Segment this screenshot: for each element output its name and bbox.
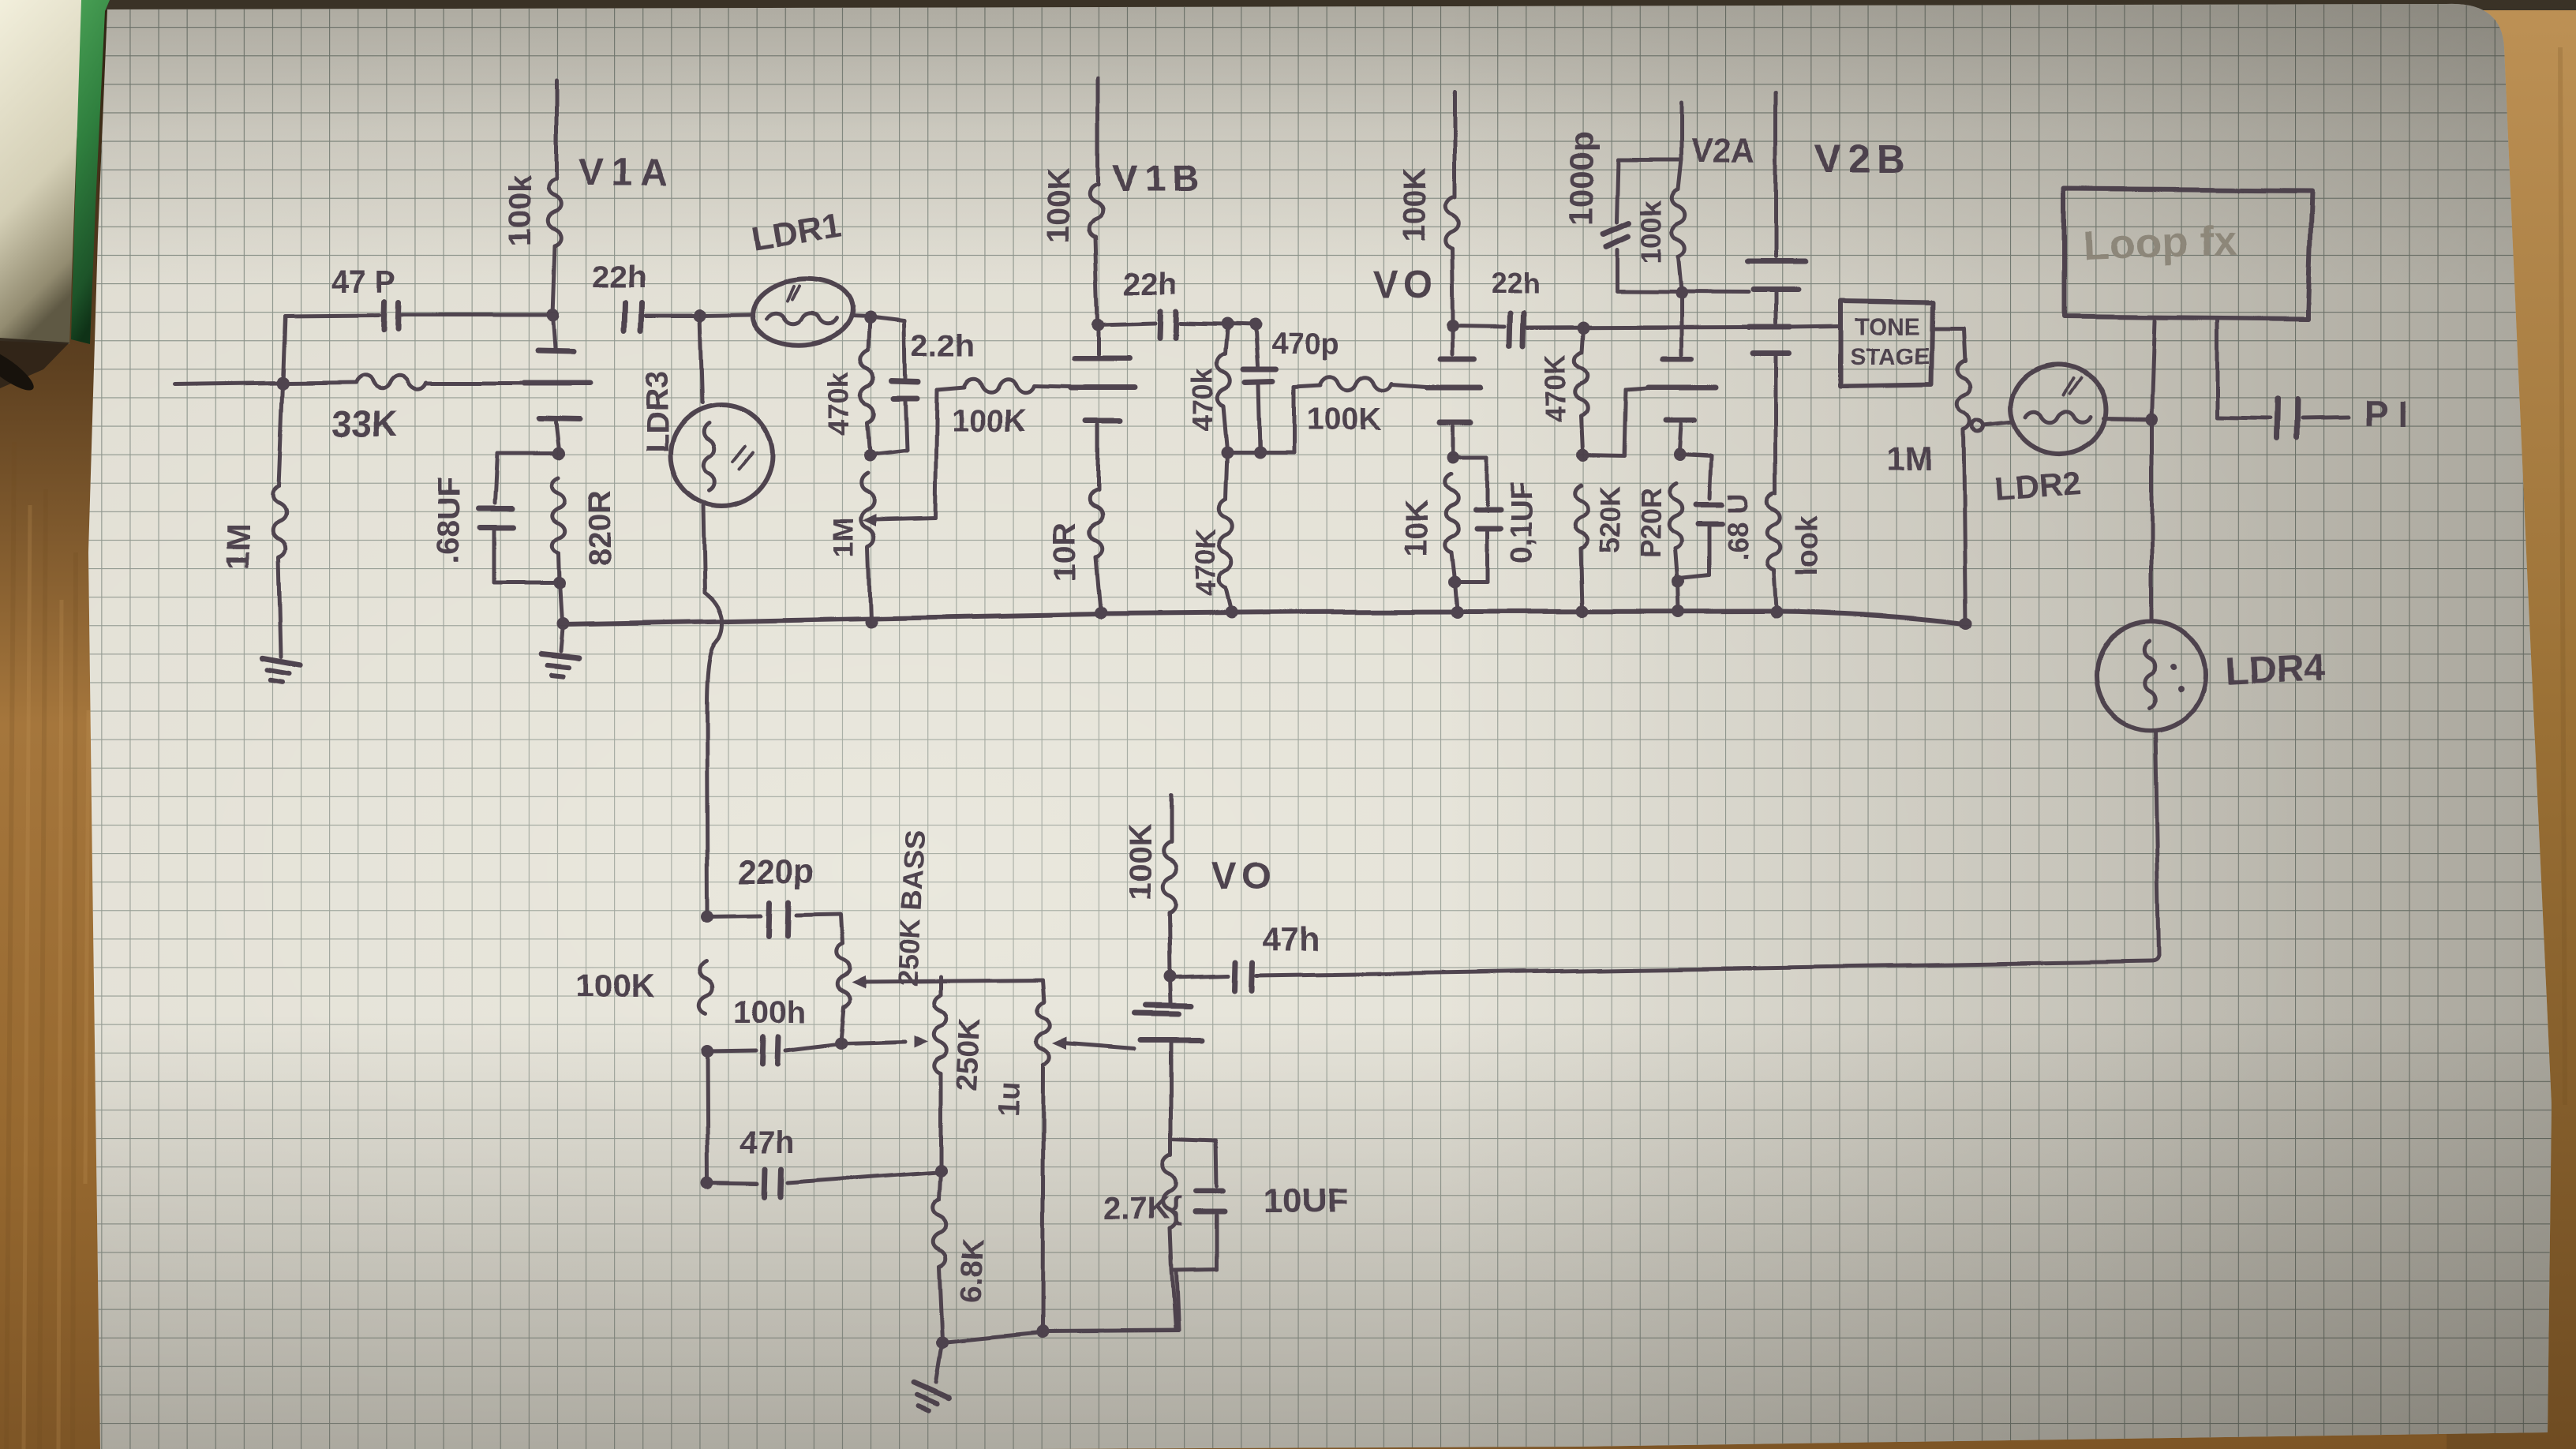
node bus 520K [1576, 605, 1589, 618]
node LDR2 out [2146, 413, 2159, 425]
resistor 100K slope [700, 961, 713, 1014]
svg-text:2.7K{: 2.7K{ [1103, 1191, 1182, 1226]
svg-text:100k: 100k [1634, 200, 1667, 264]
capacitor PI coupling [2276, 399, 2277, 440]
wire V1A wiper [863, 515, 877, 527]
wire V2B col mid [1774, 293, 1778, 323]
capacitor plate V1A c1 [537, 350, 574, 351]
svg-text:820R: 820R [583, 489, 618, 565]
capacitor 47P [384, 301, 384, 330]
capacitor 470p [1255, 325, 1257, 366]
node LDR1 out [863, 312, 876, 324]
node VO cathode [1447, 451, 1459, 463]
wire tone out [1933, 327, 1964, 331]
resistor 470K V1A mix upper [868, 318, 870, 351]
capacitor plate V1B c3 [1086, 420, 1120, 425]
svg-text:V2A: V2A [1690, 132, 1755, 169]
wire V2B col lower [1774, 356, 1778, 493]
wire PI out [2301, 418, 2349, 419]
svg-text:100K: 100K [1398, 167, 1432, 243]
node V1B mix a [1221, 446, 1234, 459]
wire VO2 col lower [1170, 1043, 1174, 1140]
resistor 100K V2A grid [1672, 189, 1685, 256]
ground input [259, 658, 300, 684]
node bus V1B mix [1225, 606, 1237, 619]
resistor 820R V2A cathode [1669, 483, 1683, 549]
wire 47n long [1256, 956, 2159, 975]
svg-text:22h: 22h [1492, 268, 1541, 300]
capacitor plate V1A c2 wide [524, 380, 591, 386]
wire main bus [563, 611, 1966, 624]
resistor 100K interstage 2 [1294, 385, 1320, 387]
node bus V1A [864, 616, 877, 628]
resistor 100K V1A plate [555, 81, 559, 180]
wire LDR3 drop [706, 710, 707, 915]
svg-text:470K: 470K [1189, 528, 1222, 596]
wire V1A col upper [552, 315, 555, 348]
node VO2 [1164, 971, 1177, 983]
node input junction [276, 377, 289, 390]
capacitor plate VO c3 [1440, 419, 1471, 425]
capacitor 1000p [1618, 159, 1681, 163]
capacitor plate VO2 c1 [1146, 1005, 1192, 1006]
node bus left end [556, 617, 569, 630]
wire bottom return [942, 1332, 1040, 1342]
node V2 mix [1577, 449, 1589, 462]
resistor 100K VO plate [1453, 92, 1457, 197]
wire LDR4 riser [2151, 421, 2155, 621]
wire LDR3 bottom [703, 506, 705, 593]
wire to 2.2n corner [870, 317, 904, 321]
node V1B mix b [1253, 446, 1266, 459]
resistor 470K V2 upper [1582, 328, 1584, 352]
node LDR2 left terminal [1972, 421, 1983, 432]
capacitor 22n VO out [1511, 313, 1511, 346]
capacitor 22n V1B [1159, 311, 1160, 338]
node 100n tap [701, 1045, 713, 1058]
resistor 470K V1B mix lower [1219, 499, 1233, 587]
node V2A cathode bottom [1672, 575, 1685, 588]
wire rail to LDR1 [646, 314, 698, 318]
capacitor plate V2B c1 wide [1748, 259, 1805, 264]
svg-text:100K: 100K [1123, 824, 1158, 900]
capacitor 220p [707, 915, 762, 916]
capacitor 47n low [707, 1053, 708, 1181]
resistor 100K V1B plate [1096, 78, 1100, 185]
wire LDR2 left [1983, 422, 2012, 425]
node V1A mix junction [863, 449, 876, 462]
svg-text:.68UF: .68UF [432, 477, 466, 563]
capacitor plate VO2 c3 wide [1140, 1038, 1202, 1043]
wire to tone stage [1790, 326, 1840, 327]
green object [71, 0, 110, 344]
LDR4 photoresistor [2096, 621, 2205, 730]
capacitor plate V1B c2 wide [1071, 386, 1135, 391]
wire VO out rail [1453, 326, 1506, 327]
svg-text:LDR3: LDR3 [640, 371, 675, 453]
svg-text:470p: 470p [1271, 328, 1339, 361]
node V1A cathode junction [552, 447, 565, 460]
resistor 100K interstage 1 [937, 388, 964, 390]
svg-text:V2B: V2B [1815, 137, 1911, 181]
svg-text:520K: 520K [1593, 486, 1626, 554]
wire LDR1 out [851, 316, 870, 317]
svg-text:47 P: 47 P [331, 264, 396, 299]
wire VO2 col [1170, 977, 1171, 1003]
svg-text:VO: VO [1373, 265, 1437, 307]
svg-text:LDR4: LDR4 [2224, 646, 2325, 694]
resistor 1M V1A mix lower [862, 474, 875, 547]
capacitor 0.1UF VO bypass [1453, 455, 1487, 459]
wire to MID wiper [843, 1042, 904, 1043]
resistor 33K [286, 383, 355, 384]
LDR1 photoresistor [751, 276, 856, 350]
svg-text:10UF: 10UF [1263, 1181, 1348, 1220]
wire bus stub to ground [560, 623, 563, 650]
svg-text:1M: 1M [828, 518, 860, 557]
node V1A cathode bottom [553, 577, 566, 590]
wire VO col [1451, 326, 1455, 354]
wire to bus [560, 583, 562, 622]
svg-text:6.8K: 6.8K [954, 1237, 990, 1303]
wire LDR4 down [2155, 730, 2159, 956]
svg-text:TONE: TONE [1855, 313, 1920, 339]
resistor 6.8K [939, 1171, 941, 1200]
resistor 100K VO2 [1170, 795, 1174, 843]
wire V1B col [1096, 324, 1100, 354]
wire VO2 gnd stub [1171, 1269, 1175, 1330]
node V1B rail a [1221, 318, 1234, 331]
resistor 820R V1A cathode [552, 477, 566, 552]
node V1B plate [1091, 318, 1104, 331]
wire bottom return 2 [1045, 1331, 1178, 1331]
wire H-line A [1616, 291, 1749, 292]
capacitor plate VO c1 [1441, 357, 1476, 362]
node V2A [1675, 286, 1687, 299]
node MID bottom [934, 1164, 947, 1177]
node N1 V1A plate [546, 309, 559, 321]
wire input stub [175, 384, 283, 385]
svg-text:220p: 220p [738, 852, 814, 889]
resistor 470K V1B mix upper [1225, 324, 1227, 354]
capacitor plate V1B c1 [1073, 356, 1129, 361]
node VO cathode bottom [1448, 575, 1461, 588]
node 470K tap [1578, 321, 1590, 334]
svg-text:1u: 1u [992, 1080, 1027, 1116]
svg-text:47h: 47h [740, 1126, 795, 1161]
svg-text:470k: 470k [823, 372, 856, 436]
wire V2A stub top [1679, 103, 1683, 159]
svg-text:V1B: V1B [1112, 159, 1204, 200]
svg-text:10R: 10R [1047, 523, 1082, 581]
capacitor plate V2A c2 wide [1649, 385, 1716, 391]
node 1M vol bottom [1036, 1325, 1049, 1338]
wire rail to V1A plate node [402, 313, 552, 317]
dark pen on desk [0, 338, 69, 388]
wire VO bus stub [1455, 582, 1457, 611]
wire V1B out [1260, 451, 1294, 455]
arrow 1M wiper [1053, 1037, 1067, 1050]
node bus VO [1451, 606, 1463, 619]
node 220p tap [701, 910, 713, 923]
svg-text:470k: 470k [1186, 367, 1219, 431]
svg-text:33K: 33K [331, 403, 398, 444]
resistor 2.7K [1170, 1140, 1174, 1155]
box Loop fx [2065, 189, 2312, 319]
arrow BASS wiper [851, 975, 865, 988]
svg-text:100k: 100k [503, 175, 537, 246]
capacitor plate VO c2 wide [1428, 385, 1481, 391]
svg-text:100h: 100h [734, 995, 806, 1030]
LDR2 photoresistor [2005, 358, 2113, 460]
capacitor 10UF [1171, 1140, 1215, 1141]
capacitor plate V2A c3 [1665, 418, 1694, 424]
wire PI drop [2216, 318, 2220, 418]
capacitor 22n V1A out [624, 303, 625, 330]
capacitor plate V2B c4 [1753, 350, 1789, 356]
wire H rail to V2B [1528, 327, 1748, 328]
node gnd tap bottom [936, 1335, 949, 1348]
potentiometer 250K MID [939, 977, 943, 995]
resistor 100K V2B [1767, 493, 1780, 570]
wire PI horiz [2218, 418, 2270, 419]
resistor 10R V1B cathode [1089, 491, 1103, 557]
svg-text:22h: 22h [592, 260, 646, 294]
wire V2A bus stub [1679, 582, 1679, 610]
svg-text:470K: 470K [1540, 354, 1572, 421]
svg-text:47h: 47h [1263, 921, 1320, 958]
capacitor .68U V2A bypass [1679, 455, 1711, 457]
resistor 10K VO cathode [1445, 474, 1458, 552]
wire input riser [283, 316, 285, 384]
wire top rail left [285, 315, 380, 316]
capacitor 100n [707, 1050, 756, 1051]
svg-text:LDR2: LDR2 [1993, 464, 2082, 507]
wire LDR2 riser [2152, 321, 2155, 419]
potentiometer 1M volume [1042, 980, 1043, 1002]
node V1B rail b [1249, 319, 1261, 331]
capacitor plate V1A c3 [539, 419, 579, 420]
svg-text:look: look [1791, 514, 1824, 576]
node bus right end [1960, 617, 1972, 630]
svg-text:Loop fx: Loop fx [2082, 217, 2237, 270]
node bus V1B [1094, 607, 1106, 620]
capacitor .68UF V1A bypass [497, 452, 559, 456]
node V2A cathode [1672, 449, 1685, 462]
svg-text:V1A: V1A [578, 152, 676, 194]
svg-text:VO: VO [1212, 856, 1276, 897]
svg-text:1000p: 1000p [1563, 132, 1600, 226]
capacitor plate VO2 c2 [1135, 1013, 1179, 1014]
wire LDR3 top [700, 316, 702, 402]
node BASS bottom [833, 1037, 846, 1050]
svg-text:100K: 100K [951, 403, 1027, 438]
svg-text:100K: 100K [1041, 167, 1076, 243]
svg-text:P20R: P20R [1634, 488, 1667, 559]
wire V1B rail [1098, 323, 1155, 324]
ground V1A [539, 653, 578, 676]
wire LDR2 right [2104, 418, 2150, 419]
wire V2 mix link [1583, 455, 1624, 456]
wire V2A col [1679, 293, 1683, 354]
capacitor 47n out [1235, 963, 1236, 990]
svg-text:0,1UF: 0,1UF [1505, 482, 1538, 563]
svg-text:250K: 250K [951, 1017, 988, 1091]
svg-text:1M: 1M [1886, 440, 1932, 477]
wire V1A col lower [556, 423, 559, 451]
svg-text:10K: 10K [1399, 500, 1434, 557]
resistor 1M input [279, 384, 283, 486]
wire 47n to VO2 [1173, 976, 1229, 978]
node bus V2B [1769, 606, 1782, 619]
box TONE STAGE [1840, 301, 1933, 386]
svg-text:.68 U: .68 U [1721, 492, 1754, 560]
potentiometer 250K BASS [837, 944, 850, 1006]
svg-text:P I: P I [2364, 393, 2408, 434]
LDR3 photoresistor [670, 404, 773, 507]
capacitor 2.2n [904, 321, 905, 379]
svg-text:2.2h: 2.2h [912, 329, 975, 364]
node 47n low tap [702, 1177, 714, 1189]
node N2 [694, 309, 706, 322]
svg-text:100K: 100K [576, 968, 655, 1005]
node VO plate [1447, 320, 1459, 332]
svg-text:22h: 22h [1124, 266, 1178, 301]
resistor 1M tail [1957, 361, 1971, 430]
svg-text:1M: 1M [219, 524, 256, 570]
resistor 520K V2 lower [1574, 485, 1588, 549]
node bus V2A [1673, 605, 1686, 618]
svg-text:100K: 100K [1306, 402, 1382, 436]
capacitor plate V2B c2 [1754, 287, 1798, 293]
ground bottom [906, 1383, 949, 1416]
white sheet top-left [0, 0, 85, 344]
wire V2B stub top [1774, 92, 1778, 256]
capacitor plate V2A c1 [1663, 355, 1691, 361]
wire LDR3 hop over bus [705, 593, 722, 710]
capacitor plate V2B c3 [1750, 324, 1790, 330]
svg-text:STAGE: STAGE [1850, 343, 1930, 369]
